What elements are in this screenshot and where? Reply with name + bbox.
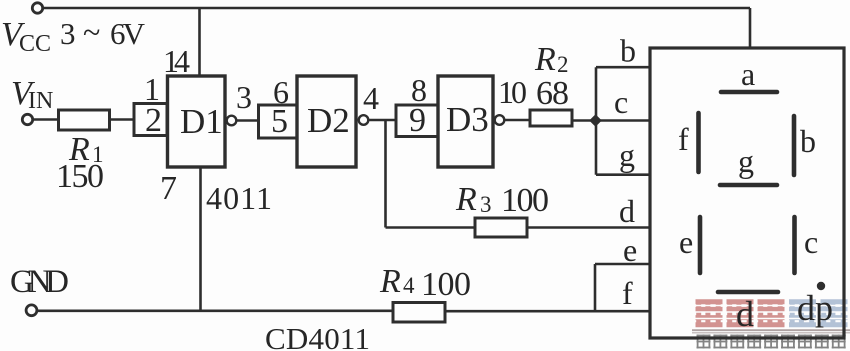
wire d from branch through R3 to display xyxy=(386,226,476,229)
svg-text:D2: D2 xyxy=(307,101,350,140)
gate D3 xyxy=(438,76,493,167)
terminal VCC xyxy=(32,3,42,13)
svg-text:9: 9 xyxy=(409,102,426,139)
wire top VCC rail xyxy=(43,7,751,10)
resistor R1 xyxy=(59,110,110,130)
svg-text:CC: CC xyxy=(19,31,51,57)
wire R2 to display c input xyxy=(572,119,650,122)
node junction after R2 xyxy=(589,114,602,127)
segment c xyxy=(792,217,797,273)
wire g into display xyxy=(596,173,650,176)
segment f xyxy=(696,113,701,172)
wire b/g branch vertical xyxy=(595,67,598,175)
svg-text:100: 100 xyxy=(421,266,471,303)
svg-text:4: 4 xyxy=(403,273,415,298)
wire VIN to R1 xyxy=(33,118,59,121)
svg-text:GND: GND xyxy=(10,264,69,300)
wire D1 pin 7 to GND rail xyxy=(199,167,202,311)
output bubble D2 pin 4 xyxy=(359,115,369,125)
svg-text:D3: D3 xyxy=(446,100,489,139)
segment a xyxy=(721,90,777,95)
watermark logo text 易迪拓 (red) xyxy=(696,300,723,328)
svg-text:3: 3 xyxy=(480,192,492,217)
svg-text:4011: 4011 xyxy=(206,180,272,216)
D1 input stub pins 1,2 xyxy=(134,104,167,136)
svg-text:e: e xyxy=(623,232,637,268)
svg-text:g: g xyxy=(619,137,635,173)
svg-text:10: 10 xyxy=(498,74,527,110)
svg-text:a: a xyxy=(741,56,755,92)
gate D2 xyxy=(297,76,356,167)
svg-text:R: R xyxy=(455,181,477,218)
D3 input stub pins 8,9 xyxy=(396,105,438,137)
segment g xyxy=(720,183,777,188)
svg-text:d: d xyxy=(736,294,754,334)
wire e into display xyxy=(595,263,650,266)
svg-text:CD4011: CD4011 xyxy=(265,321,370,351)
display box LED 7-segment xyxy=(650,48,844,338)
svg-text:14: 14 xyxy=(163,43,190,79)
svg-text:R: R xyxy=(534,41,556,78)
svg-text:150: 150 xyxy=(56,158,104,195)
svg-text:e: e xyxy=(679,224,693,260)
svg-text:f: f xyxy=(622,275,633,311)
wire D1 out to D2 input stub xyxy=(236,119,259,122)
segment d xyxy=(718,290,778,295)
wire D2 out to D3 input stub xyxy=(368,119,396,122)
svg-text:g: g xyxy=(738,143,754,179)
wire D3 out to R2 xyxy=(504,119,530,122)
wire VCC branch to D1 pin 14 xyxy=(198,8,201,76)
watermark logo text 培训 (blue) xyxy=(789,300,816,328)
svg-text:D1: D1 xyxy=(180,102,223,141)
svg-text:d: d xyxy=(619,193,635,229)
segment b xyxy=(792,116,797,175)
wire R3 to display d input xyxy=(527,226,650,229)
svg-text:4: 4 xyxy=(363,80,379,116)
resistor R3 xyxy=(475,218,527,237)
svg-text:3: 3 xyxy=(236,79,252,115)
wire e branch vertical xyxy=(594,264,597,311)
terminal GND xyxy=(26,305,37,316)
watermark logo 易迪拓培训 xyxy=(692,300,850,349)
wire GND rail to R4 xyxy=(37,309,393,312)
wire branch down to R3 xyxy=(384,120,387,228)
resistor R4 xyxy=(393,303,445,323)
svg-text:dp: dp xyxy=(797,288,833,328)
svg-text:2: 2 xyxy=(145,102,162,139)
terminal VIN xyxy=(22,114,32,124)
svg-text:100: 100 xyxy=(501,182,549,219)
output bubble D1 pin 3 xyxy=(227,116,237,126)
wire VCC rail drop to display top xyxy=(749,8,752,48)
svg-text:3: 3 xyxy=(60,16,76,51)
wire b into display xyxy=(596,66,650,69)
svg-text:68: 68 xyxy=(536,75,569,112)
watermark stripe effect xyxy=(693,306,849,319)
resistor R2 xyxy=(530,110,572,126)
svg-text:f: f xyxy=(678,121,689,157)
D2 input stub pins 5,6 xyxy=(259,105,298,138)
watermark underline xyxy=(692,329,850,331)
output bubble D3 pin 10 xyxy=(495,115,505,125)
svg-text:c: c xyxy=(804,224,818,260)
wire R1 to D1 input stub xyxy=(110,118,135,121)
svg-text:IN: IN xyxy=(28,88,53,114)
watermark subtitle 射频和天线设计专家 (gray) xyxy=(697,335,711,349)
svg-text:b: b xyxy=(800,123,816,159)
svg-text:~: ~ xyxy=(83,14,100,50)
svg-text:c: c xyxy=(614,84,628,120)
svg-text:6V: 6V xyxy=(110,16,146,51)
svg-text:2: 2 xyxy=(557,52,569,77)
svg-text:5: 5 xyxy=(271,103,288,140)
segment dp xyxy=(817,282,825,290)
wire R4 to display f input xyxy=(445,310,650,313)
svg-text:R: R xyxy=(379,263,401,300)
svg-text:b: b xyxy=(620,33,636,69)
segment e xyxy=(698,217,703,273)
gate D1 xyxy=(168,76,226,167)
svg-text:7: 7 xyxy=(160,170,177,207)
